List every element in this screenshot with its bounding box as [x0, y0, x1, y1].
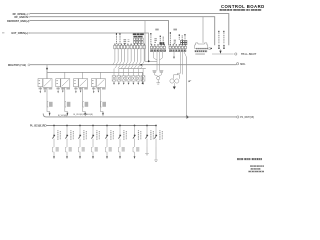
connector P8 dip grid	[134, 38, 136, 40]
junction arrow on line A	[187, 115, 190, 119]
svg-text:TB1-L /NEUT: TB1-L /NEUT	[241, 53, 257, 56]
wire DEFROST_END	[30, 21, 169, 46]
switch S8 branch	[145, 125, 153, 155]
switch S3 branch	[78, 125, 86, 159]
connector P6 pin row	[169, 46, 171, 48]
note doc number	[250, 165, 264, 166]
component small box	[209, 48, 211, 50]
switch S4 branch	[91, 125, 99, 159]
svg-text:MOL/TOP (7.1E): MOL/TOP (7.1E)	[8, 64, 26, 67]
connector P6 right block	[179, 34, 180, 36]
arrow P1 to TB line	[220, 49, 222, 50]
triac row stubs	[113, 69, 115, 76]
svg-text:CONTROL BOARD: CONTROL BOARD	[221, 4, 264, 9]
motor M1 bracket	[174, 75, 180, 79]
switch S7 branch	[133, 125, 141, 159]
terminal circle MOL left	[28, 64, 30, 66]
connector P8 mid dashes	[124, 40, 127, 44]
motor M1 windings	[170, 79, 174, 83]
connector P8 wires	[114, 49, 116, 62]
svg-text:PL_B21(8.1F): PL_B21(8.1F)	[30, 125, 45, 128]
arrow off-page	[188, 81, 190, 82]
connector P8 text block	[133, 33, 144, 35]
svg-text:B_VIO(8) B_BLK(8): B_VIO(8) B_BLK(8)	[74, 114, 93, 116]
subtitle models	[220, 9, 233, 11]
arrow MOL tap	[46, 68, 48, 71]
note date	[248, 171, 264, 172]
wire EXT_OPEN	[30, 33, 149, 61]
wire K1 feed	[202, 17, 204, 43]
relay RL2	[56, 72, 71, 116]
wire long vertical to P1_OUT	[186, 57, 188, 117]
wire P6 pin2 arrow	[173, 52, 175, 57]
triac row output arrows	[113, 81, 115, 83]
wire funnel horizontal	[145, 60, 157, 62]
wire TB1	[212, 53, 234, 55]
connector P3 left label	[150, 33, 151, 35]
terminal circle MOL right	[237, 63, 239, 65]
connector P11 label	[195, 53, 205, 55]
wire P1_OUT	[43, 114, 236, 117]
svg-text:P1_OUT(15): P1_OUT(15)	[240, 116, 254, 119]
ground G2	[156, 80, 160, 84]
wire MOL	[30, 64, 236, 66]
terminal circle TB1	[235, 53, 237, 55]
wire PL_B21	[47, 125, 157, 127]
lamp DS1	[157, 77, 160, 80]
connector P6 body	[169, 50, 186, 52]
wire P6 right diagonal	[184, 52, 187, 57]
wires caps merge	[155, 72, 162, 76]
connector P11 hatch bar	[195, 50, 207, 52]
terminal dots left lines	[29, 13, 30, 14]
terminal circle P1_OUT	[237, 116, 239, 118]
relay RL1	[38, 70, 53, 116]
junction MOL at bus tap	[46, 65, 48, 68]
wire P8 diagonals to rail	[115, 65, 117, 68]
svg-text:B_VIO(8): B_VIO(8)	[58, 115, 67, 117]
ground G3	[173, 83, 175, 86]
connector P3 pin row	[150, 46, 152, 48]
connector P6 col ticks	[170, 44, 171, 45]
connector P1 labels	[218, 31, 219, 33]
junction funnel	[148, 60, 150, 62]
wire DF_GND	[30, 17, 215, 46]
wire DF_OPEN	[30, 14, 229, 46]
wire DEFROST_END branch	[144, 21, 146, 62]
connector P3 mid dashes	[154, 39, 156, 43]
junction MOL x141	[140, 64, 142, 66]
switch S1 branch	[52, 125, 60, 159]
connector P3 body	[150, 50, 166, 52]
switch S9 branch	[154, 125, 162, 162]
capacitor C1	[153, 70, 157, 72]
svg-text:DF_GND IN: DF_GND IN	[15, 16, 29, 19]
connector P3 right block	[160, 36, 161, 38]
connector P6 grid	[181, 40, 183, 42]
connector P8 left labels	[116, 33, 117, 35]
wire bus	[47, 72, 143, 82]
wire rail	[119, 68, 146, 70]
svg-text:DEFROST_END(+): DEFROST_END(+)	[7, 20, 29, 23]
wires P6 to motor	[178, 52, 183, 75]
connector P6 name	[173, 29, 177, 31]
switch S6 branch	[118, 125, 126, 159]
svg-text:MOL: MOL	[240, 63, 246, 66]
connector P11 body	[195, 43, 208, 49]
triac row boxes	[112, 76, 116, 82]
note FRONT PANEL INTERFACE	[237, 158, 243, 160]
connector P8 col ticks	[114, 44, 115, 45]
wire P8 bus entries	[113, 61, 115, 64]
svg-text:EXT_OPEN(+): EXT_OPEN(+)	[12, 32, 29, 35]
wires P3 funnel	[154, 52, 157, 60]
relay RL3	[74, 72, 89, 116]
relay RL4	[91, 72, 106, 116]
connector P8 pin row	[114, 45, 116, 49]
capacitor C2	[159, 70, 163, 72]
connector P6 mid dashes	[174, 40, 176, 44]
connector P6 left label	[170, 32, 171, 34]
terminal circle PL_B21	[44, 125, 46, 127]
switch S5 branch	[105, 125, 113, 159]
note sheet	[251, 168, 261, 169]
switch S2 branch	[65, 125, 73, 159]
connector P3 col ticks	[151, 44, 152, 45]
connector P3 name	[155, 29, 158, 31]
connector P1 pin marks	[218, 44, 220, 47]
